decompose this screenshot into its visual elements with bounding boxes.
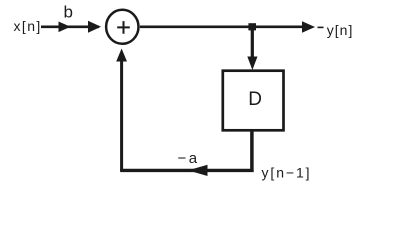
arrowhead mid input — [59, 22, 71, 33]
summing junction U1 — [106, 10, 138, 44]
wire feedback up — [120, 59, 123, 172]
wire delay output down — [250, 130, 254, 172]
wire feedback bottom — [120, 169, 253, 172]
svg-text:y[n]: y[n] — [327, 22, 354, 38]
wire output — [140, 25, 303, 28]
arrowhead to y[n] — [302, 21, 315, 33]
wire junction to delay — [251, 27, 254, 59]
arrowhead feedback left — [188, 165, 208, 176]
wire input — [41, 25, 99, 28]
svg-text:−a: −a — [178, 150, 200, 167]
delay block D — [223, 71, 284, 131]
svg-text:b: b — [64, 2, 73, 21]
arrowhead into delay — [247, 57, 257, 71]
junction node — [248, 23, 256, 30]
arrowhead into summer — [88, 21, 101, 33]
arrowhead into summer bottom — [116, 49, 127, 62]
dash after arrowhead — [318, 26, 324, 28]
svg-text:x[n]: x[n] — [14, 18, 42, 34]
svg-text:y[n−1]: y[n−1] — [262, 164, 312, 180]
svg-text:D: D — [248, 89, 262, 110]
